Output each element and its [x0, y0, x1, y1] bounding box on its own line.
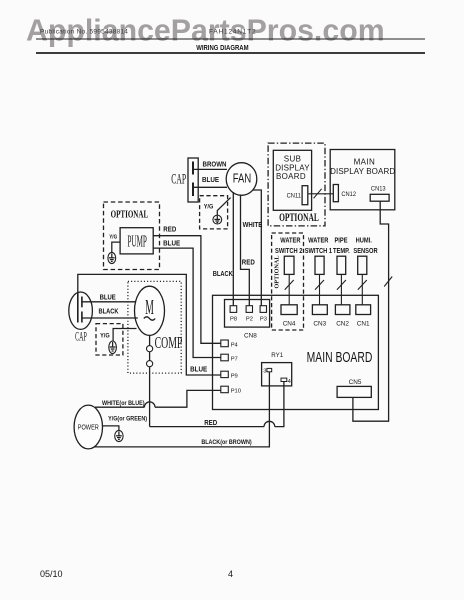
svg-text:P10: P10 [231, 389, 241, 395]
pin P9 [221, 371, 238, 379]
pipe temp component [337, 256, 346, 274]
svg-text:BROWN: BROWN [203, 161, 227, 168]
connector CN1 [356, 305, 371, 328]
svg-text:P2: P2 [246, 316, 253, 322]
header rule lower [36, 52, 425, 54]
ground (comp) [109, 341, 117, 354]
main display board [330, 150, 395, 210]
svg-text:WATER: WATER [308, 237, 329, 245]
pin P7 [221, 354, 238, 363]
svg-text:OPTIONAL: OPTIONAL [111, 208, 148, 220]
connector CN11 [287, 186, 308, 205]
svg-text:CN1: CN1 [357, 321, 370, 328]
svg-text:CN4: CN4 [283, 321, 296, 328]
connector slash (CN3 wire) [315, 280, 324, 290]
svg-text:POWER: POWER [78, 424, 100, 432]
wire BLACK power-to-RY1 pin3 [94, 372, 269, 447]
svg-text:05/10: 05/10 [40, 569, 63, 579]
water switch 1 component [315, 256, 324, 274]
svg-text:RY1: RY1 [271, 352, 283, 359]
wire WHITE fan-to-P3 [253, 190, 261, 306]
svg-text:Publication No. 5995438814: Publication No. 5995438814 [40, 29, 128, 36]
overload loop 1 [147, 346, 153, 352]
optional box Y/G (fan ground) [200, 196, 228, 229]
svg-text:WHITE: WHITE [243, 222, 263, 229]
power plug POWER [74, 405, 102, 449]
svg-text:MAIN: MAIN [354, 158, 376, 167]
wire M to ground [113, 329, 136, 342]
wire BLUE cap-to-M [82, 301, 136, 303]
svg-text:RED: RED [242, 259, 255, 266]
svg-text:WHITE(or BLUE): WHITE(or BLUE) [102, 401, 145, 408]
svg-text:WATER: WATER [280, 237, 301, 245]
connector CN12 [333, 185, 356, 202]
svg-text:Y/G: Y/G [109, 234, 117, 240]
svg-text:PIPE: PIPE [334, 237, 348, 245]
water switch 2 component [284, 256, 294, 274]
wire BLACK fan-to-P8 [232, 192, 234, 306]
ground (fan) [213, 215, 222, 224]
header rule upper [36, 38, 425, 40]
svg-text:4: 4 [288, 379, 292, 385]
svg-text:BLACK(or BROWN): BLACK(or BROWN) [201, 440, 251, 447]
svg-text:P7: P7 [231, 357, 238, 363]
sub display board [273, 150, 311, 210]
capacitor CAP (fan) [188, 158, 198, 202]
svg-text:BLUE: BLUE [100, 294, 117, 302]
svg-text:P8: P8 [230, 316, 237, 322]
optional box (pump) [104, 202, 160, 270]
fan motor FAN [226, 163, 257, 196]
wire RED fan-to-P2 [241, 195, 250, 306]
svg-text:CN13: CN13 [371, 185, 386, 192]
svg-text:BLACK: BLACK [213, 271, 233, 279]
wire humi-to-CN1 [361, 274, 363, 304]
svg-text:M: M [145, 295, 154, 320]
svg-text:RED: RED [163, 226, 176, 233]
connector CN3 [312, 305, 327, 328]
wire fan to ground [217, 198, 230, 216]
svg-text:4: 4 [228, 569, 233, 579]
label WATER SWITCH 1 [305, 237, 333, 255]
connector CN2 [335, 305, 350, 328]
svg-text:CN3: CN3 [313, 321, 326, 328]
svg-text:FAN: FAN [233, 172, 251, 186]
svg-text:Y/G: Y/G [204, 204, 214, 210]
svg-text:BLUE: BLUE [202, 177, 220, 184]
svg-text:Y/G(or GREEN): Y/G(or GREEN) [108, 416, 147, 423]
pin 4 (RY1) [281, 378, 292, 385]
connector CN4 [281, 305, 297, 328]
ground (pump) [108, 252, 116, 263]
humi sensor component [358, 256, 367, 274]
wire switch1-to-CN3 [319, 274, 321, 304]
label PIPE TEMP. [333, 237, 350, 255]
svg-text:PUMP: PUMP [128, 232, 147, 250]
wire BLACK cap-to-M [82, 317, 138, 319]
wire CN5-to-CN13 [353, 201, 389, 421]
wire BLUE cap-to-fan [193, 186, 227, 188]
ground (power) [115, 430, 123, 441]
svg-text:OPTIONAL: OPTIONAL [279, 212, 319, 225]
relay RY1 [262, 352, 292, 386]
svg-text:HUMI.: HUMI. [356, 237, 372, 245]
svg-text:DISPLAY: DISPLAY [275, 163, 310, 172]
wire BROWN cap-to-fan [193, 168, 227, 170]
wire BLUE pump-to-P7 [153, 248, 221, 357]
svg-text:BOARD: BOARD [276, 172, 306, 181]
optional box Y/G (comp ground) [96, 324, 123, 355]
wire comp common down [149, 335, 151, 426]
label HUMI. SENSOR [353, 237, 378, 255]
svg-text:P3: P3 [260, 316, 267, 322]
svg-text:CN2: CN2 [336, 321, 349, 328]
wire WHITE power-to-P10 [95, 390, 221, 407]
connector CN8 [225, 300, 270, 328]
watermark AppliancePartsPros.com [26, 15, 385, 48]
wire RED comp-to-RY1 pin4 [150, 382, 284, 427]
capacitor CAP (comp) [69, 292, 93, 329]
svg-text:MAIN BOARD: MAIN BOARD [307, 350, 373, 366]
svg-text:WIRING DIAGRAM: WIRING DIAGRAM [196, 45, 249, 53]
svg-text:P4: P4 [231, 343, 239, 349]
svg-text:CAP: CAP [75, 330, 87, 344]
svg-text:COMP: COMP [155, 333, 183, 351]
svg-text:Y/G: Y/G [100, 333, 110, 339]
svg-text:DISPLAY BOARD: DISPLAY BOARD [330, 167, 395, 176]
svg-text:BLUE: BLUE [163, 240, 181, 247]
connector slash (CN4 wire) [285, 280, 294, 290]
svg-text:OPTIONAL: OPTIONAL [274, 255, 281, 288]
svg-text:P9: P9 [231, 374, 238, 380]
wire switch2-to-CN4 [288, 274, 290, 304]
wire pump to ground [112, 242, 120, 252]
pin P10 [221, 386, 241, 394]
connector slash (CN5 wire) [384, 277, 392, 287]
connector slash (CN11 wire) [314, 189, 322, 199]
svg-text:3: 3 [263, 368, 266, 374]
svg-text:BLACK: BLACK [98, 308, 118, 316]
compressor box COMP [128, 281, 183, 373]
label WATER SWITCH 2 [275, 237, 303, 255]
connector slash (CN2 wire) [337, 280, 346, 290]
wire pipetemp-to-CN2 [340, 274, 342, 304]
wire BLUE compcap-to-P9 [78, 274, 221, 375]
connector CN5 [337, 379, 371, 397]
svg-text:FAH124N1T2: FAH124N1T2 [209, 29, 256, 36]
svg-text:SWITCH 1: SWITCH 1 [305, 248, 333, 256]
wire Y/G power-to-ground [102, 426, 119, 430]
svg-text:CN12: CN12 [341, 191, 356, 198]
svg-text:CN8: CN8 [244, 333, 257, 340]
optional box (water switch 2) [272, 233, 304, 330]
pin P4 [221, 340, 239, 349]
svg-text:RED: RED [204, 420, 217, 427]
svg-text:CAP: CAP [171, 172, 186, 187]
svg-text:CN11: CN11 [287, 192, 302, 199]
svg-text:SENSOR: SENSOR [353, 248, 378, 256]
svg-text:BLUE: BLUE [190, 366, 208, 373]
main board MAIN BOARD [213, 295, 379, 409]
compressor motor M [135, 286, 165, 335]
svg-text:TEMP.: TEMP. [333, 248, 350, 256]
svg-text:CN5: CN5 [349, 379, 362, 386]
wire RED pump-to-P4 [153, 236, 221, 344]
connector slash (CN1 wire) [358, 280, 367, 290]
overload loop 2 [147, 361, 153, 367]
connector CN13 [370, 185, 389, 201]
optional box (sub display) [268, 143, 325, 226]
wire CN11-to-CN12 [308, 193, 334, 195]
svg-text:SUB: SUB [284, 154, 302, 163]
pin 3 (RY1) [263, 368, 271, 374]
svg-text:SWITCH 2: SWITCH 2 [275, 248, 303, 256]
pump PUMP [120, 228, 153, 254]
